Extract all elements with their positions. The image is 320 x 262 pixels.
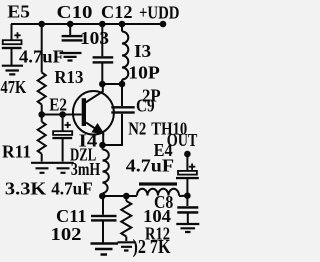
- wire I3 bottom stub: [121, 80, 123, 85]
- wire coil to E4 node: [179, 195, 187, 197]
- ground C10: [60, 53, 82, 61]
- wire top rail: [11, 23, 163, 25]
- resistor R11: [38, 122, 46, 154]
- svg-text:47K: 47K: [1, 77, 27, 97]
- capacitor C11 plates: [91, 215, 117, 217]
- ground E2: [52, 163, 74, 173]
- capacitor E2 plus: [65, 122, 71, 128]
- svg-text:E5: E5: [7, 2, 30, 22]
- capacitor E2 plates: [53, 131, 72, 135]
- inductor core bar: [139, 182, 177, 185]
- svg-text:C9: C9: [136, 96, 155, 116]
- wire E2 drop: [62, 115, 64, 132]
- wire C8 to ground: [187, 214, 189, 224]
- svg-text:R13: R13: [54, 67, 83, 87]
- node dot collector left: [99, 81, 106, 88]
- node dot rail-R13: [38, 21, 45, 28]
- svg-text:4.7uF: 4.7uF: [126, 155, 174, 175]
- svg-text:I3: I3: [134, 41, 151, 61]
- wire C9 top: [121, 84, 123, 106]
- svg-text:4.7uF: 4.7uF: [51, 179, 92, 199]
- inductor I3: [122, 32, 128, 80]
- svg-text:N2: N2: [128, 118, 146, 138]
- wire R13 to base: [41, 105, 43, 115]
- wire E4 to node: [186, 179, 188, 196]
- wire node to C8: [186, 196, 188, 206]
- transistor Q1 circle: [73, 91, 114, 135]
- node dot VDD: [160, 21, 167, 28]
- node dot emitter: [99, 142, 106, 149]
- wire collector link: [102, 83, 122, 85]
- capacitor E4 plates: [178, 171, 197, 175]
- svg-text:4.7uF: 4.7uF: [19, 47, 64, 67]
- wire emitter link: [103, 114, 123, 145]
- svg-text:C12: C12: [101, 2, 133, 22]
- ground C8: [176, 224, 199, 232]
- svg-text:102: 102: [51, 224, 82, 244]
- wire base: [42, 114, 82, 116]
- wire I4 top stub: [102, 145, 104, 150]
- node dot rail-C10: [67, 21, 74, 28]
- svg-text:C11: C11: [56, 206, 87, 226]
- node dot rail-C12: [99, 21, 106, 28]
- svg-text:R11: R11: [2, 142, 31, 162]
- resistor R12: [121, 201, 131, 237]
- ground C11: [91, 244, 119, 255]
- transistor base bar: [82, 98, 86, 126]
- inductor I4: [103, 150, 109, 194]
- wire emitter bottom rail: [102, 195, 137, 197]
- node dot base-E2: [59, 111, 66, 118]
- capacitor E5 plus: [14, 32, 20, 38]
- svg-text:103: 103: [80, 28, 109, 48]
- wire R12 stub: [125, 196, 127, 201]
- wire E5 to ground: [11, 49, 13, 65]
- svg-text:+UDD: +UDD: [139, 2, 180, 22]
- node dot emitter bottom left: [99, 193, 106, 200]
- node dot base-R11: [38, 111, 45, 118]
- svg-text:3.3K: 3.3K: [5, 179, 46, 199]
- node dot rail-I3: [119, 21, 126, 28]
- ground R11: [31, 163, 53, 173]
- svg-text:E2: E2: [49, 94, 67, 114]
- ground R12: [118, 242, 136, 250]
- node dot collector right: [119, 81, 126, 88]
- ground E5: [2, 66, 23, 75]
- resistor R13: [38, 73, 46, 105]
- wire C11 drop: [102, 196, 104, 215]
- wire C12 to collector node: [101, 64, 103, 85]
- capacitor C8 plates: [177, 206, 198, 209]
- wire C11 to ground: [102, 221, 104, 243]
- node dot R12 top: [123, 193, 130, 200]
- capacitor E4 plus: [189, 164, 195, 170]
- svg-text:)2 7K: )2 7K: [133, 236, 171, 258]
- node dot OUT: [184, 151, 191, 158]
- wire I4 bottom stub: [102, 193, 104, 196]
- capacitor C12 plates: [93, 56, 114, 58]
- wire I3 top stub: [121, 24, 123, 32]
- node dot E4 bottom: [184, 192, 191, 199]
- transistor emitter arrow: [93, 125, 103, 133]
- transistor emitter diagonal: [86, 123, 103, 134]
- wire C12 drop: [101, 24, 103, 56]
- capacitor C9 plates: [111, 106, 134, 108]
- svg-text:C10: C10: [57, 2, 93, 22]
- wire OUT to E4: [186, 154, 188, 171]
- capacitor C10 plates: [62, 35, 83, 37]
- wire E5 drop: [11, 24, 13, 40]
- svg-text:3mH: 3mH: [71, 159, 100, 179]
- wire E2 to ground: [62, 139, 64, 162]
- svg-text:10P: 10P: [128, 63, 160, 83]
- wire collector to transistor: [86, 84, 103, 103]
- capacitor E5 plates: [3, 40, 22, 44]
- wire R11 stub: [41, 115, 43, 122]
- wire emitter vertical: [102, 134, 104, 146]
- wire R12 to ground: [125, 237, 127, 242]
- wire R13 drop: [41, 24, 43, 73]
- inductor L bottom horizontal: [137, 189, 179, 196]
- wire C10 drop: [69, 24, 71, 35]
- wire R11 to ground: [41, 154, 43, 162]
